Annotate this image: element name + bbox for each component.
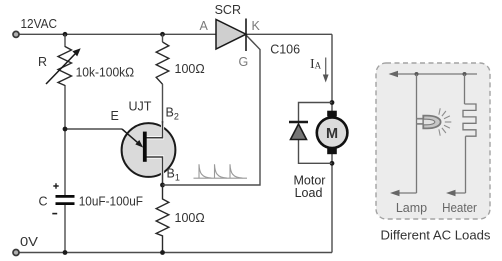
- svg-text:Load: Load: [295, 186, 323, 200]
- svg-text:R: R: [38, 55, 47, 69]
- resistor 100Ω bottom: [156, 185, 169, 253]
- svg-text:10uF-100uF: 10uF-100uF: [79, 195, 144, 209]
- UJT emitter arrow: [122, 129, 143, 148]
- polarity minus: [52, 213, 57, 215]
- svg-text:C106: C106: [270, 43, 300, 57]
- svg-text:Different AC Loads: Different AC Loads: [381, 229, 491, 243]
- node junction B1: [160, 183, 165, 188]
- svg-text:IA: IA: [310, 57, 322, 72]
- variable resistor R: [46, 47, 81, 86]
- motor M1 body: [317, 117, 348, 148]
- svg-text:K: K: [252, 19, 261, 33]
- wire heater arrow bottom: [446, 190, 466, 196]
- wire heater branch bottom: [465, 136, 467, 193]
- motor M1 terminals: [327, 111, 337, 155]
- node junction motor top: [330, 100, 335, 105]
- wire middle branch B2: [162, 84, 164, 125]
- wire gate from B1: [163, 36, 261, 186]
- svg-text:B1: B1: [167, 167, 180, 183]
- svg-text:M: M: [326, 126, 338, 142]
- wire emitter E: [65, 128, 122, 130]
- terminal 12VAC: [13, 31, 19, 37]
- SCR U1 triangle: [216, 20, 246, 50]
- wire heater branch top: [464, 74, 466, 104]
- UJT B1 lead: [145, 157, 163, 185]
- wire lamp arrow bottom: [390, 190, 417, 196]
- svg-text:A: A: [200, 19, 209, 33]
- svg-text:Lamp: Lamp: [396, 201, 427, 215]
- resistor 100Ω top: [156, 34, 169, 84]
- svg-text:G: G: [239, 55, 249, 69]
- lamp rays: [439, 108, 451, 135]
- UJT Q1 body: [122, 123, 176, 177]
- node junction E: [63, 127, 68, 132]
- node junction bottom-mid: [160, 250, 165, 255]
- svg-text:0V: 0V: [20, 235, 39, 249]
- capacitor C plates: [56, 196, 75, 203]
- svg-text:SCR: SCR: [215, 3, 241, 17]
- node loads junction lamp: [415, 72, 419, 76]
- svg-text:C: C: [39, 195, 48, 209]
- wire right branch: [331, 34, 333, 252]
- UJT base bar: [143, 132, 147, 162]
- svg-text:12VAC: 12VAC: [21, 17, 58, 31]
- node loads junction heater: [463, 72, 467, 76]
- wire diode branch: [299, 103, 333, 164]
- svg-text:UJT: UJT: [129, 100, 152, 114]
- top rail wire 12VAC: [16, 33, 332, 35]
- label Motor Load: [294, 174, 326, 201]
- heater element: [463, 104, 476, 136]
- svg-text:10k-100kΩ: 10k-100kΩ: [76, 65, 135, 79]
- wire loads top with arrow: [389, 71, 478, 77]
- UJT B2 lead: [145, 121, 163, 138]
- lamp icon: [417, 116, 441, 129]
- dashed box AC loads: [376, 63, 490, 219]
- SCR cathode bar: [245, 19, 247, 52]
- node junction motor bottom: [330, 161, 335, 166]
- svg-text:100Ω: 100Ω: [175, 211, 205, 225]
- svg-text:100Ω: 100Ω: [175, 62, 205, 76]
- node junction top-mid: [160, 32, 165, 37]
- bottom rail wire 0V: [16, 252, 332, 254]
- terminal 0V: [13, 250, 19, 256]
- wire left branch: [64, 34, 66, 252]
- current arrow IA: [323, 58, 329, 83]
- pulse waveform: [194, 164, 248, 178]
- svg-text:B2: B2: [166, 106, 179, 122]
- node junction top-left: [63, 32, 68, 37]
- svg-text:Heater: Heater: [442, 201, 477, 215]
- wire lamp branch: [416, 74, 418, 193]
- node junction bottom-left: [63, 250, 68, 255]
- svg-text:E: E: [111, 109, 119, 123]
- polarity plus: [53, 183, 58, 188]
- diode D1: [289, 122, 308, 140]
